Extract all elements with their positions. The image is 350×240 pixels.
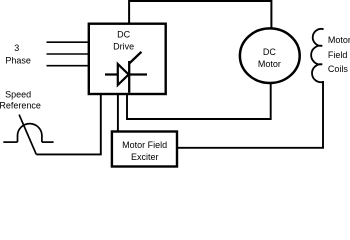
Motor Field Exciter box U2	[112, 132, 177, 167]
inductor motor field coil L1	[311, 29, 323, 82]
label 3 Phase	[5, 43, 31, 65]
svg-text:Motor: Motor	[328, 35, 350, 45]
pot hump	[18, 124, 42, 143]
speed reference potentiometer symbol	[3, 115, 53, 155]
label Speed Reference	[0, 90, 41, 111]
svg-text:Speed: Speed	[5, 90, 31, 100]
wire armature loop: DC Drive cathode out to DC Motor bottom	[127, 83, 271, 119]
svg-text:Motor: Motor	[258, 59, 281, 69]
svg-text:Exciter: Exciter	[131, 152, 159, 162]
wire pot right lead	[42, 141, 54, 143]
DC Motor M1	[240, 28, 300, 83]
pot wiper diagonal	[19, 115, 36, 155]
label Motor Field Coils	[328, 35, 350, 74]
svg-text:DC: DC	[263, 47, 276, 57]
thyristor SCR inside DC Drive	[105, 52, 147, 93]
wire speed reference to DC Drive	[36, 95, 101, 155]
svg-text:DC: DC	[117, 30, 130, 40]
label DC Motor	[258, 47, 281, 69]
thyristor gate lead	[129, 52, 141, 64]
label Motor Field Exciter	[122, 140, 167, 162]
svg-text:Motor Field: Motor Field	[122, 140, 167, 150]
svg-text:Field: Field	[328, 50, 348, 60]
label DC Drive	[113, 30, 134, 52]
wire pot left lead	[3, 141, 17, 143]
thyristor triangle	[118, 64, 129, 85]
svg-text:Reference: Reference	[0, 101, 41, 111]
DC Drive box U1	[89, 24, 166, 94]
svg-text:3: 3	[14, 43, 19, 53]
wire DC Drive to Motor Field Exciter	[117, 95, 119, 132]
wire field loop: coil bottom to Motor Field Exciter right	[177, 81, 323, 148]
wire top rail: DC Drive top to DC Motor top	[129, 1, 271, 28]
wire 3-phase input lines	[47, 42, 90, 65]
thyristor cathode bar	[128, 61, 130, 93]
wire anode lead	[105, 73, 147, 75]
svg-text:Coils: Coils	[328, 64, 349, 74]
svg-text:Drive: Drive	[113, 41, 134, 51]
svg-text:Phase: Phase	[5, 56, 31, 66]
